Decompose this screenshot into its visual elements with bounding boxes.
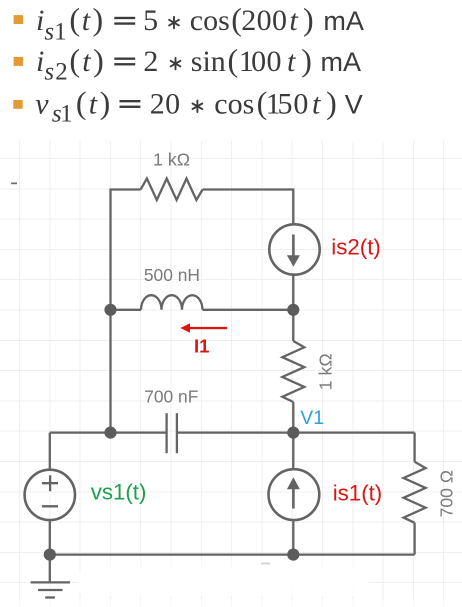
svg-text:(: ( [228, 42, 239, 78]
svg-text:2: 2 [150, 87, 165, 120]
svg-text:1: 1 [54, 19, 67, 46]
svg-text:): ) [303, 1, 314, 37]
svg-text:V: V [345, 89, 363, 119]
svg-text:(: ( [76, 84, 87, 120]
svg-text:mA: mA [323, 6, 364, 36]
svg-text:(: ( [69, 42, 80, 78]
svg-text:): ) [93, 1, 104, 37]
svg-text:is1(t): is1(t) [333, 480, 383, 505]
svg-text:): ) [326, 84, 337, 120]
svg-text:t: t [89, 87, 98, 120]
svg-text:V1: V1 [300, 407, 324, 429]
svg-text:0: 0 [257, 4, 272, 37]
svg-text:): ) [301, 42, 312, 78]
svg-text:0: 0 [272, 4, 287, 37]
svg-text:0: 0 [267, 45, 282, 78]
svg-text:t: t [289, 4, 298, 37]
svg-text:0: 0 [165, 87, 180, 120]
svg-text:0: 0 [251, 45, 266, 78]
svg-text:sin: sin [191, 45, 226, 78]
svg-text:5: 5 [278, 87, 293, 120]
svg-text:2: 2 [143, 45, 158, 78]
svg-text:(: ( [69, 1, 80, 37]
svg-text:1: 1 [60, 100, 73, 127]
svg-text:s: s [44, 59, 54, 86]
svg-text:is2(t): is2(t) [331, 235, 381, 260]
svg-text:i: i [36, 4, 44, 37]
svg-text:I1: I1 [194, 336, 209, 357]
svg-text:cos: cos [214, 87, 254, 120]
svg-text:t: t [312, 87, 321, 120]
svg-text:2: 2 [55, 59, 67, 86]
svg-text:): ) [93, 42, 104, 78]
svg-text:v: v [35, 87, 49, 120]
svg-text:500 nH: 500 nH [144, 265, 200, 285]
svg-text:t: t [82, 4, 91, 37]
svg-text:700 nF: 700 nF [144, 387, 198, 407]
svg-text:cos: cos [190, 4, 230, 37]
svg-text:mA: mA [321, 47, 362, 77]
svg-text:): ) [100, 84, 111, 120]
svg-text:t: t [287, 45, 296, 78]
svg-text:i: i [36, 45, 44, 78]
svg-text:2: 2 [241, 4, 256, 37]
svg-text:700 Ω: 700 Ω [436, 470, 456, 517]
svg-text:1 kΩ: 1 kΩ [315, 353, 335, 390]
svg-text:1 kΩ: 1 kΩ [153, 149, 190, 169]
svg-text:t: t [82, 45, 91, 78]
svg-text:vs1(t): vs1(t) [91, 479, 147, 504]
svg-text:s: s [44, 19, 54, 46]
svg-text:0: 0 [293, 87, 308, 120]
svg-text:5: 5 [143, 4, 158, 37]
